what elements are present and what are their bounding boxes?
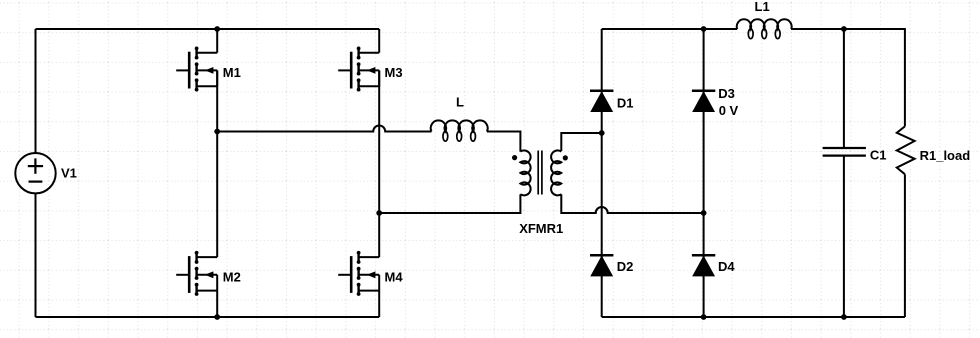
junction node bottom rail bridge xyxy=(701,314,707,320)
junction node top rail M1 xyxy=(214,26,220,32)
wire left leg M1 source to M2 drain xyxy=(216,70,218,257)
wire left vertical lower (V1 minus to bottom rail) xyxy=(35,193,37,317)
svg-text:M1: M1 xyxy=(223,65,241,80)
capacitor C1 xyxy=(823,148,866,156)
wire M2 source to bottom rail xyxy=(216,291,218,317)
junction node C1 top xyxy=(841,26,847,32)
wire top rail right output xyxy=(602,28,738,30)
resistor R1_load zigzag xyxy=(897,126,915,174)
wire bottom rail right xyxy=(602,316,905,318)
junction node secondary top xyxy=(599,130,605,136)
wire after L1 to load corner xyxy=(791,29,905,126)
wire right leg M3 source to M4 drain xyxy=(378,70,380,257)
svg-text:XFMR1: XFMR1 xyxy=(519,221,563,236)
junction node top rail bridge xyxy=(701,26,707,32)
wire phase A to transformer primary top xyxy=(487,132,521,152)
svg-text:M2: M2 xyxy=(223,270,241,285)
wire C1 top lead xyxy=(843,29,845,148)
transformer secondary phase dot xyxy=(563,155,568,160)
svg-text:L: L xyxy=(456,95,464,110)
wire bottom rail left bridge xyxy=(36,316,380,318)
svg-text:M3: M3 xyxy=(385,65,403,80)
wire left vertical upper (V1 plus to top rail) xyxy=(35,29,37,153)
diode D1 xyxy=(590,91,613,112)
transformer core xyxy=(538,151,542,195)
wire top rail left bridge xyxy=(36,28,380,30)
voltage source V1 xyxy=(15,153,55,193)
diode D3 xyxy=(692,91,715,112)
svg-text:V1: V1 xyxy=(61,166,77,181)
junction node secondary bottom xyxy=(701,210,707,216)
wire M1 drain stub xyxy=(216,29,218,53)
svg-text:0 V: 0 V xyxy=(719,103,739,118)
transformer primary phase dot xyxy=(512,155,517,160)
junction node C1 bottom xyxy=(841,314,847,320)
inductor L1 xyxy=(737,19,792,38)
wire transformer primary bottom to phase B xyxy=(379,194,520,213)
wire R1 bottom lead xyxy=(904,174,906,317)
wire bridge left vertical xyxy=(601,29,603,317)
transistor M1 xyxy=(176,47,217,92)
wire transformer secondary top to bridge xyxy=(561,133,601,151)
transformer XFMR1 primary winding xyxy=(520,150,530,195)
inductor L xyxy=(431,120,488,141)
wire phase A with hop over right leg xyxy=(217,126,431,132)
diode D4 xyxy=(692,255,715,276)
junction node bottom rail M2 xyxy=(214,314,220,320)
svg-text:L1: L1 xyxy=(755,0,770,14)
wire M3 drain stub xyxy=(378,29,380,53)
wire transformer secondary bottom with hop to bridge right xyxy=(561,194,703,213)
svg-text:R1_load: R1_load xyxy=(920,148,971,163)
svg-text:D1: D1 xyxy=(617,96,634,111)
junction node phase A xyxy=(214,129,220,135)
wire C1 bottom lead xyxy=(843,155,845,317)
transistor M4 xyxy=(338,251,379,296)
svg-text:D3: D3 xyxy=(718,86,735,101)
wire bridge right vertical xyxy=(703,29,705,317)
junction node phase B xyxy=(376,210,382,216)
svg-text:C1: C1 xyxy=(870,148,887,163)
wire M4 source to bottom rail xyxy=(378,291,380,317)
transistor M2 xyxy=(176,251,217,296)
transformer secondary winding xyxy=(551,150,561,195)
svg-text:M4: M4 xyxy=(385,270,404,285)
svg-text:D4: D4 xyxy=(718,259,735,274)
svg-text:D2: D2 xyxy=(617,259,634,274)
transistor M3 xyxy=(338,47,379,92)
diode D2 xyxy=(590,255,613,276)
